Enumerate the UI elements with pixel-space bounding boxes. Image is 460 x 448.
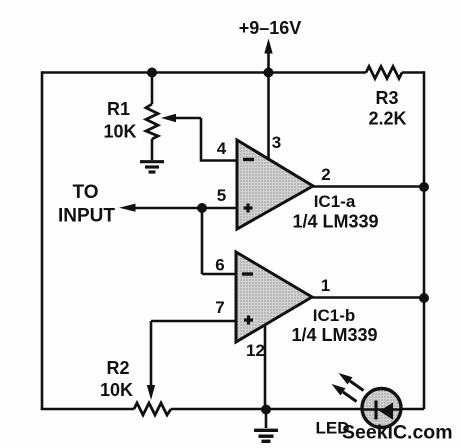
svg-text:6: 6	[215, 256, 224, 275]
op-amp IC1-b	[236, 252, 378, 345]
wire pin 7	[151, 320, 236, 323]
ground under R1	[140, 162, 164, 172]
svg-text:1/4 LM339: 1/4 LM339	[291, 325, 377, 345]
node junction out2 / right rail	[419, 182, 429, 192]
node junction top rail / R1	[147, 68, 157, 78]
wire pin 3 riser	[267, 73, 270, 160]
wire pin 6	[202, 273, 236, 276]
wire R1 bottom lead	[151, 139, 154, 160]
svg-text:R2: R2	[106, 358, 129, 378]
svg-text:10K: 10K	[100, 380, 133, 400]
wire top rail left segment	[42, 71, 366, 74]
svg-text:10K: 10K	[103, 122, 136, 142]
wire pin5 node down to pin6	[201, 208, 204, 274]
svg-text:IC1-a: IC1-a	[314, 192, 356, 211]
wire top rail right segment	[402, 71, 424, 74]
LED emission arrows	[332, 373, 364, 402]
svg-text:IC1-b: IC1-b	[313, 306, 356, 325]
node junction pin5 / pin6	[197, 203, 207, 213]
op-amp IC1-a	[237, 140, 379, 232]
svg-text:TO: TO	[72, 182, 98, 203]
node junction top rail / pin3 riser	[264, 68, 274, 78]
svg-text:12: 12	[246, 341, 265, 360]
svg-text:SeekIC.com: SeekIC.com	[342, 422, 453, 444]
svg-text:R1: R1	[107, 99, 130, 119]
TO INPUT arrow	[58, 182, 236, 227]
svg-text:INPUT: INPUT	[58, 206, 115, 227]
wire left rail	[41, 71, 44, 410]
R1 wiper arrow	[161, 114, 201, 122]
svg-text:7: 7	[215, 298, 224, 317]
node junction out1 / right rail	[419, 293, 429, 303]
wire right rail	[423, 71, 426, 409]
svg-text:2.2K: 2.2K	[368, 109, 406, 129]
svg-text:2: 2	[321, 165, 330, 184]
svg-text:4: 4	[217, 139, 227, 158]
wire R1 top lead	[151, 73, 154, 105]
svg-text:1/4 LM339: 1/4 LM339	[292, 212, 378, 232]
wire bottom rail right segment	[171, 408, 424, 411]
svg-text:3: 3	[272, 133, 281, 152]
resistor R2 10K potentiometer	[100, 358, 171, 415]
svg-text:+9–16V: +9–16V	[239, 18, 302, 38]
LED	[316, 389, 402, 438]
wire output pin 2	[313, 185, 424, 188]
svg-text:5: 5	[217, 186, 226, 205]
svg-text:1: 1	[321, 276, 330, 295]
svg-text:R3: R3	[375, 88, 398, 108]
wire bottom rail left segment	[41, 408, 134, 411]
resistor R3 2.2K	[366, 67, 407, 129]
R2 wiper arrow down	[147, 321, 155, 400]
power supply arrow +9-16V	[239, 18, 302, 73]
wire wiper to pin 4	[201, 118, 236, 161]
node junction pin12 / bottom rail	[261, 405, 271, 415]
resistor R1 10K potentiometer	[103, 99, 158, 142]
wire output pin 1	[312, 296, 424, 299]
ground under pin 12	[254, 409, 278, 441]
wire pin 12	[264, 325, 267, 409]
